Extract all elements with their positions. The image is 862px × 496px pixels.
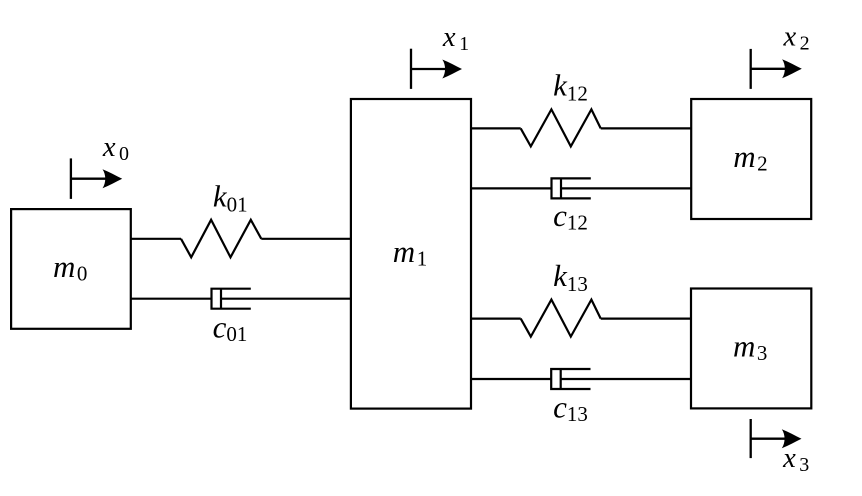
wire damper c01 rod to m1 [221, 298, 351, 300]
svg-text:x0: x0 [102, 132, 129, 165]
arrow x3 shaft [751, 438, 792, 440]
mass m2 box [691, 99, 811, 219]
svg-text:c13: c13 [553, 389, 588, 426]
svg-text:m3: m3 [733, 329, 767, 366]
wire spring k01 to m1 [261, 238, 351, 240]
svg-text:c12: c12 [553, 198, 588, 235]
svg-text:x3: x3 [782, 443, 809, 476]
arrow x2 tick [750, 49, 752, 89]
damper c13 piston [560, 369, 562, 389]
wire damper c13 rod to m3 [561, 378, 691, 380]
svg-text:x1: x1 [442, 22, 469, 55]
spring k12 zigzag [521, 109, 601, 146]
wire m1 to damper c12 [471, 187, 552, 189]
arrow x2 head [782, 59, 802, 78]
wire m1 to spring k13 [471, 318, 521, 320]
svg-text:m0: m0 [53, 249, 87, 286]
arrow x2 shaft [751, 68, 792, 70]
mass m3 box [691, 289, 811, 409]
wire m0 to damper c01 [131, 298, 212, 300]
svg-text:k01: k01 [213, 178, 248, 216]
damper c13 cylinder [551, 369, 590, 389]
arrow x1 tick [410, 49, 412, 89]
spring k01 zigzag [181, 220, 261, 257]
svg-text:m1: m1 [393, 234, 427, 271]
wire spring k13 to m3 [601, 318, 691, 320]
arrow x0 tick [70, 158, 72, 199]
wire m0 to spring k01 [131, 238, 181, 240]
spring k13 zigzag [521, 300, 601, 337]
svg-text:k13: k13 [553, 258, 588, 296]
damper c12 piston [560, 178, 562, 198]
arrow x1 shaft [411, 68, 452, 70]
arrow x3 tick [750, 419, 752, 458]
wire m1 to spring k12 [471, 127, 521, 129]
arrow x0 head [103, 169, 123, 188]
mass m0 box [11, 209, 131, 329]
arrow x0 shaft [71, 178, 112, 180]
damper c12 cylinder [552, 178, 591, 198]
wire damper c12 rod to m2 [561, 187, 691, 189]
wire spring k12 to m2 [601, 127, 692, 129]
svg-text:c01: c01 [213, 310, 248, 347]
mass m1 box [351, 99, 471, 409]
damper c01 cylinder [212, 289, 251, 309]
svg-text:m2: m2 [733, 139, 767, 176]
arrow x1 head [442, 60, 462, 79]
arrow x3 head [782, 429, 802, 448]
damper c01 piston [220, 289, 222, 309]
svg-text:x2: x2 [783, 22, 810, 55]
svg-text:k12: k12 [553, 68, 588, 106]
wire m1 to damper c13 [471, 378, 551, 380]
